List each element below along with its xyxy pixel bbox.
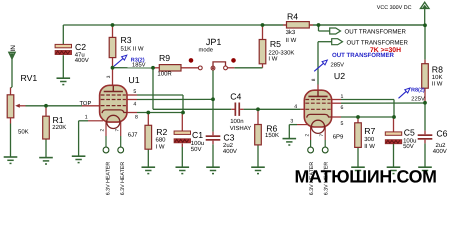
probe 225V value bbox=[411, 95, 425, 102]
svg-text:R3: R3 bbox=[121, 35, 132, 45]
U1 pin 5 number bbox=[133, 89, 136, 95]
junction U1 cathode / C1 bbox=[181, 111, 185, 115]
U2 heater terminal 2 bbox=[308, 147, 314, 153]
svg-text:R8(2): R8(2) bbox=[411, 88, 425, 94]
wire C5 top lead bbox=[393, 117, 395, 132]
C2 label bbox=[75, 42, 86, 52]
U1 pin 1 number bbox=[85, 114, 88, 120]
svg-text:400V: 400V bbox=[75, 57, 89, 64]
U1 TOP grid pin label bbox=[80, 100, 92, 107]
svg-text:220K: 220K bbox=[52, 124, 66, 131]
svg-text:3: 3 bbox=[106, 75, 112, 78]
svg-text:4: 4 bbox=[294, 104, 297, 110]
U1 pin 4 number bbox=[133, 101, 136, 107]
U2 heater label 6.3V HEATER left bbox=[309, 162, 315, 196]
svg-text:4: 4 bbox=[133, 101, 136, 107]
wire U1 heater pin 2 bbox=[105, 122, 107, 148]
ground under C6 bbox=[418, 167, 432, 173]
capacitor C4 bbox=[235, 103, 241, 116]
wire R9 left lead bbox=[153, 67, 159, 69]
U2 pin 6 number bbox=[341, 105, 344, 111]
svg-text:100n: 100n bbox=[230, 118, 243, 125]
svg-text:50V: 50V bbox=[191, 146, 202, 153]
wire U2 plate to output transformer terminal 2 bbox=[318, 42, 332, 91]
R9 label bbox=[159, 53, 170, 63]
U2 pin 5 number bbox=[341, 121, 344, 127]
svg-text:51K II W: 51K II W bbox=[121, 46, 144, 53]
junction R9 left / C4 branch bbox=[151, 66, 155, 70]
svg-text:I W: I W bbox=[268, 56, 277, 63]
U2 heater pin 7 number bbox=[319, 134, 325, 137]
probe 285V value bbox=[331, 62, 345, 69]
JP1 label bbox=[206, 37, 222, 47]
svg-text:VISHAY: VISHAY bbox=[230, 125, 252, 132]
svg-text:C1: C1 bbox=[192, 130, 203, 140]
wire U2 pin 6 to R8/C6 node bbox=[332, 102, 425, 104]
wire U2 pin 3 to ground bbox=[289, 125, 307, 139]
svg-text:8: 8 bbox=[311, 78, 317, 81]
C4 label bbox=[230, 92, 241, 102]
R6 label bbox=[266, 123, 277, 133]
wire C3 to ground bbox=[212, 141, 214, 168]
svg-text:VCC 300V DC: VCC 300V DC bbox=[377, 5, 412, 11]
capacitor C5 bbox=[385, 132, 401, 144]
wire R8 top lead bbox=[424, 25, 426, 63]
JP1 mode label bbox=[199, 46, 214, 53]
wire U1 plate top pin bbox=[112, 68, 114, 86]
U2 pin 3 number bbox=[290, 118, 293, 124]
R5 value 220-330K I W bbox=[268, 49, 294, 62]
R8 value 10K II W bbox=[432, 74, 443, 87]
R4 label bbox=[287, 11, 298, 21]
vacuum tube U2 6P9 bbox=[304, 90, 331, 133]
U2 plate pin 3 number bbox=[311, 78, 317, 81]
R1 value 220K bbox=[52, 124, 66, 131]
R8 label bbox=[432, 65, 443, 75]
junction U2 cathode / C5 bbox=[392, 115, 396, 119]
svg-text:6P9: 6P9 bbox=[333, 134, 344, 141]
svg-text:C5: C5 bbox=[404, 128, 415, 138]
ground under C3 bbox=[206, 167, 220, 173]
svg-text:10K: 10K bbox=[432, 74, 443, 81]
R3 value 51K II W bbox=[121, 46, 144, 53]
svg-text:R2: R2 bbox=[156, 127, 167, 137]
wire U1 cathode pin 8 row bbox=[127, 112, 183, 114]
U1 heater pin 2 number bbox=[100, 129, 106, 132]
wire R9 right lead to JP1 bbox=[181, 67, 198, 69]
U1 heater label 6.3V HEATER left bbox=[105, 162, 111, 196]
jumper JP1 pin marker left bbox=[189, 58, 194, 63]
wire C5 to ground bbox=[393, 144, 395, 168]
wire R2 top lead bbox=[147, 113, 149, 126]
svg-text:5: 5 bbox=[133, 89, 136, 95]
svg-text:1: 1 bbox=[341, 94, 344, 100]
svg-text:R7: R7 bbox=[364, 126, 375, 136]
svg-text:5: 5 bbox=[341, 121, 344, 127]
wire C6 to ground bbox=[424, 140, 426, 168]
jumper JP1 middle contact bbox=[211, 66, 215, 70]
R1 label bbox=[53, 115, 64, 125]
wire B+ to output transformer terminal 1 bbox=[319, 25, 330, 31]
potentiometer RV1 bbox=[7, 95, 20, 118]
svg-text:400V: 400V bbox=[223, 148, 237, 155]
OUT TRANSFORMER label 2 bbox=[347, 39, 409, 46]
7K >=30H annotation bbox=[370, 47, 401, 54]
jumper JP1 pin marker right bbox=[231, 58, 236, 63]
wire U2 pin 1 row bbox=[332, 100, 394, 118]
capacitor C1 bbox=[174, 131, 190, 143]
probe R3(2) label bbox=[131, 57, 145, 63]
resistor R1 bbox=[43, 116, 50, 139]
svg-text:50V: 50V bbox=[403, 143, 414, 150]
wire R3 bottom lead / node A bbox=[112, 58, 114, 68]
U2 grid pin 4 number bbox=[294, 104, 297, 110]
wire C1 top lead bbox=[181, 113, 183, 132]
R7 value 300 II W bbox=[364, 136, 375, 150]
wire C4 line to C4 left plate bbox=[153, 108, 235, 110]
svg-text:6: 6 bbox=[341, 105, 344, 111]
ground under R1 bbox=[39, 158, 53, 164]
U2 type 6P9 bbox=[333, 134, 344, 141]
probe 185V value bbox=[132, 61, 146, 68]
U1 heater pin 7 number bbox=[114, 129, 120, 132]
wire U1 heater pin 7 bbox=[120, 122, 122, 148]
svg-text:2: 2 bbox=[304, 134, 310, 137]
C3 value 2u2 400V bbox=[223, 142, 237, 155]
junction U1 cathode / R2 bbox=[146, 111, 150, 115]
svg-text:225V: 225V bbox=[411, 95, 425, 102]
ground under C5 bbox=[387, 167, 401, 173]
svg-text:8: 8 bbox=[135, 115, 138, 121]
R7 label bbox=[364, 126, 375, 136]
VCC 300V DC label bbox=[377, 5, 412, 11]
RV1 value 50K bbox=[18, 128, 29, 135]
U1 heater label 6.3V HEATER right bbox=[120, 162, 126, 196]
svg-text:6.3V HEATER: 6.3V HEATER bbox=[120, 162, 126, 196]
resistor R4 bbox=[287, 22, 310, 28]
svg-text:6J7: 6J7 bbox=[128, 131, 138, 138]
jumper JP1 left contact bbox=[198, 66, 202, 70]
svg-text:7: 7 bbox=[114, 129, 120, 132]
svg-text:II W: II W bbox=[286, 37, 297, 44]
junction RV1 wiper / R1 bbox=[44, 104, 48, 108]
U2 heater terminal 7 bbox=[322, 147, 328, 153]
resistor R7 bbox=[355, 123, 362, 148]
svg-text:TOP: TOP bbox=[80, 100, 92, 107]
svg-text:C2: C2 bbox=[75, 42, 86, 52]
capacitor C3 bbox=[206, 135, 221, 140]
OUT TRANSFORMER net label blue bbox=[332, 52, 395, 59]
junction VCC bbox=[423, 23, 427, 27]
R2 value 680 I W bbox=[156, 136, 167, 150]
resistor R2 bbox=[145, 125, 152, 149]
U2 heater label 6.3V HEATER right bbox=[324, 162, 330, 196]
jumper JP1 right contact bbox=[224, 66, 228, 70]
voltage probe R3(2) bbox=[114, 55, 127, 66]
svg-text:mode: mode bbox=[199, 46, 214, 53]
svg-text:C3: C3 bbox=[223, 132, 234, 142]
resistor R5 bbox=[259, 40, 266, 64]
wire C2 to top rail bbox=[62, 25, 64, 45]
svg-text:400V: 400V bbox=[433, 148, 447, 155]
wire R1 to ground bbox=[45, 139, 47, 157]
watermark MATYUSHIN.COM bbox=[295, 166, 437, 186]
resistor R9 bbox=[159, 65, 181, 71]
wire IN to RV1 bbox=[11, 59, 13, 95]
wire R1 to node bbox=[45, 106, 47, 116]
C6 label bbox=[436, 129, 447, 139]
svg-text:2: 2 bbox=[100, 129, 106, 132]
junction node A R3/U1/R9 bbox=[111, 66, 115, 70]
svg-text:МАТЮШИН.СОМ: МАТЮШИН.СОМ bbox=[295, 166, 437, 186]
svg-text:3k3: 3k3 bbox=[286, 29, 296, 36]
svg-text:3: 3 bbox=[290, 118, 293, 124]
ground under R2 bbox=[142, 167, 156, 173]
svg-text:100R: 100R bbox=[157, 71, 172, 78]
U2 heater pin 2 number bbox=[304, 134, 310, 137]
jumper JP1 link middle-right bbox=[213, 62, 226, 66]
wire R6 to ground bbox=[257, 145, 259, 167]
U1 label bbox=[128, 75, 139, 85]
wire R9 node down to C4 line bbox=[152, 68, 154, 110]
wire R8 bottom lead to pin6 node bbox=[424, 88, 426, 103]
svg-text:IN: IN bbox=[10, 45, 17, 52]
wire RV1 to ground bbox=[10, 118, 12, 157]
U1 pin 8 number bbox=[135, 115, 138, 121]
C1 value 100u 50V bbox=[191, 140, 204, 153]
ground under R7 bbox=[351, 167, 365, 173]
R4 value 3k3 II W bbox=[286, 29, 297, 44]
wire top rail to VCC bbox=[319, 24, 426, 26]
wire R2 to ground bbox=[147, 149, 149, 167]
wire R7 to ground bbox=[357, 147, 359, 167]
OUT TRANSFORMER label 1 bbox=[345, 29, 407, 36]
svg-text:R1: R1 bbox=[53, 115, 64, 125]
svg-text:OUT TRANSFORMER: OUT TRANSFORMER bbox=[332, 52, 395, 59]
wire U1 pin 5 screen bbox=[127, 95, 183, 113]
svg-text:C6: C6 bbox=[436, 129, 447, 139]
ground under C2 bbox=[57, 78, 71, 84]
wire R7 top lead bbox=[357, 117, 359, 123]
RV1 label bbox=[21, 73, 38, 83]
junction C4 right / R6 / U2 grid bbox=[256, 107, 260, 111]
svg-text:C4: C4 bbox=[230, 92, 241, 102]
output transformer terminal 2 bbox=[332, 39, 343, 45]
ground U1 pin 1 bbox=[72, 156, 86, 162]
svg-text:U2: U2 bbox=[334, 71, 345, 81]
svg-text:R9: R9 bbox=[159, 53, 170, 63]
voltage probe R8(2) on U2 pin6 node bbox=[399, 88, 411, 98]
wire JP1 middle post down to U1 plate line bbox=[212, 70, 214, 99]
C5 value 100u 50V bbox=[403, 137, 416, 150]
svg-text:680: 680 bbox=[156, 136, 167, 143]
svg-text:285V: 285V bbox=[331, 62, 345, 69]
wire R5 bottom to JP1 right bbox=[228, 64, 263, 68]
svg-text:100u: 100u bbox=[191, 140, 204, 147]
svg-text:RV1: RV1 bbox=[21, 73, 38, 83]
svg-text:R6: R6 bbox=[266, 123, 277, 133]
junction U2 pin6 / R8 / C6 bbox=[423, 101, 427, 105]
svg-text:1: 1 bbox=[85, 114, 88, 120]
C5 label bbox=[404, 128, 415, 138]
svg-text:JP1: JP1 bbox=[206, 37, 222, 47]
junction U2 cathode / R7 bbox=[356, 115, 360, 119]
ground under RV1 bbox=[4, 157, 18, 163]
probe R8(2) label bbox=[411, 88, 425, 94]
wire C2 to ground bbox=[62, 55, 64, 78]
svg-text:OUT TRANSFORMER: OUT TRANSFORMER bbox=[347, 39, 409, 46]
R2 label bbox=[156, 127, 167, 137]
svg-text:OUT TRANSFORMER: OUT TRANSFORMER bbox=[345, 29, 407, 36]
C1 label bbox=[192, 130, 203, 140]
U1 plate pin 3 number bbox=[106, 75, 112, 78]
capacitor C2 bbox=[55, 44, 71, 54]
wire R6 top lead bbox=[257, 109, 259, 124]
svg-text:300: 300 bbox=[364, 136, 375, 143]
wire R5 top lead bbox=[262, 25, 264, 40]
wire C6 top lead bbox=[424, 103, 426, 135]
wire VCC terminal drop bbox=[424, 9, 426, 26]
U1 type 6J7 bbox=[128, 131, 138, 138]
svg-text:R5: R5 bbox=[270, 39, 281, 49]
wire U2 cathode pin 5 row bbox=[332, 116, 394, 118]
R5 label bbox=[270, 39, 281, 49]
wire U1 pin 4 to JP1/C3 node bbox=[127, 98, 213, 100]
wire U2 heater pin 2 bbox=[310, 127, 312, 148]
ground U2 pin 3 bbox=[283, 139, 297, 145]
R9 value 100R bbox=[157, 71, 172, 78]
svg-text:U1: U1 bbox=[128, 75, 139, 85]
IN label bbox=[10, 45, 17, 52]
ground under C1 bbox=[176, 167, 190, 173]
svg-text:R8: R8 bbox=[432, 65, 443, 75]
U2 label bbox=[334, 71, 345, 81]
svg-text:I W: I W bbox=[156, 143, 165, 150]
C4 value 100n VISHAY bbox=[230, 118, 252, 132]
wire C4 right plate to U2 grid node bbox=[240, 108, 258, 110]
junction R4 right / OUT1 bbox=[317, 23, 321, 27]
C6 value 2u2 400V bbox=[433, 142, 447, 155]
junction R5/R4 top rail bbox=[261, 23, 265, 27]
wire U2 grid node to U2 pin 4 bbox=[258, 108, 305, 110]
svg-text:150K: 150K bbox=[265, 132, 279, 139]
wire C1 to ground bbox=[181, 144, 183, 168]
vacuum tube U1 6J7 bbox=[100, 85, 127, 128]
power terminal VCC bbox=[420, 2, 429, 8]
R3 label bbox=[121, 35, 132, 45]
svg-text:7: 7 bbox=[319, 134, 325, 137]
resistor R8 bbox=[422, 64, 429, 88]
junction R3 top bbox=[111, 23, 115, 27]
wire R4 right lead bbox=[309, 24, 318, 26]
U1 heater terminal 7 bbox=[118, 147, 124, 153]
wire U2 heater pin 7 bbox=[324, 127, 326, 148]
input terminal IN bbox=[9, 52, 15, 59]
output transformer terminal 1 bbox=[330, 28, 341, 34]
svg-text:2u2: 2u2 bbox=[223, 142, 234, 149]
capacitor C6 bbox=[418, 134, 433, 139]
resistor R3 bbox=[109, 37, 116, 57]
wire C3 top lead bbox=[212, 99, 214, 135]
svg-text:II W: II W bbox=[432, 80, 443, 87]
svg-text:II W: II W bbox=[364, 143, 375, 150]
svg-text:6.3V HEATER: 6.3V HEATER bbox=[105, 162, 111, 196]
R6 value 150K bbox=[265, 132, 279, 139]
ground under R6 bbox=[251, 167, 265, 173]
U2 pin 1 number bbox=[341, 94, 344, 100]
wire R3 top lead bbox=[112, 25, 114, 37]
C3 label bbox=[223, 132, 234, 142]
resistor R6 bbox=[255, 125, 262, 145]
wire RV1 wiper to U1 grid TOP bbox=[20, 105, 101, 107]
wire B+ top rail bbox=[63, 24, 425, 26]
wire U1 pin 1 to ground bbox=[79, 121, 104, 156]
svg-text:220-330K: 220-330K bbox=[268, 49, 294, 56]
svg-text:2u2: 2u2 bbox=[436, 142, 447, 149]
junction U1 plate line / JP1 / C3 bbox=[211, 97, 215, 101]
wire R4 left lead bbox=[263, 24, 287, 26]
svg-text:R4: R4 bbox=[287, 11, 298, 21]
svg-text:50K: 50K bbox=[18, 128, 29, 135]
svg-text:185V: 185V bbox=[132, 61, 146, 68]
wire node A to R9 bbox=[113, 67, 154, 69]
U1 heater terminal 2 bbox=[103, 147, 109, 153]
voltage probe 285V on U2 plate bbox=[314, 60, 327, 71]
C2 value 47u 400V bbox=[75, 51, 89, 64]
